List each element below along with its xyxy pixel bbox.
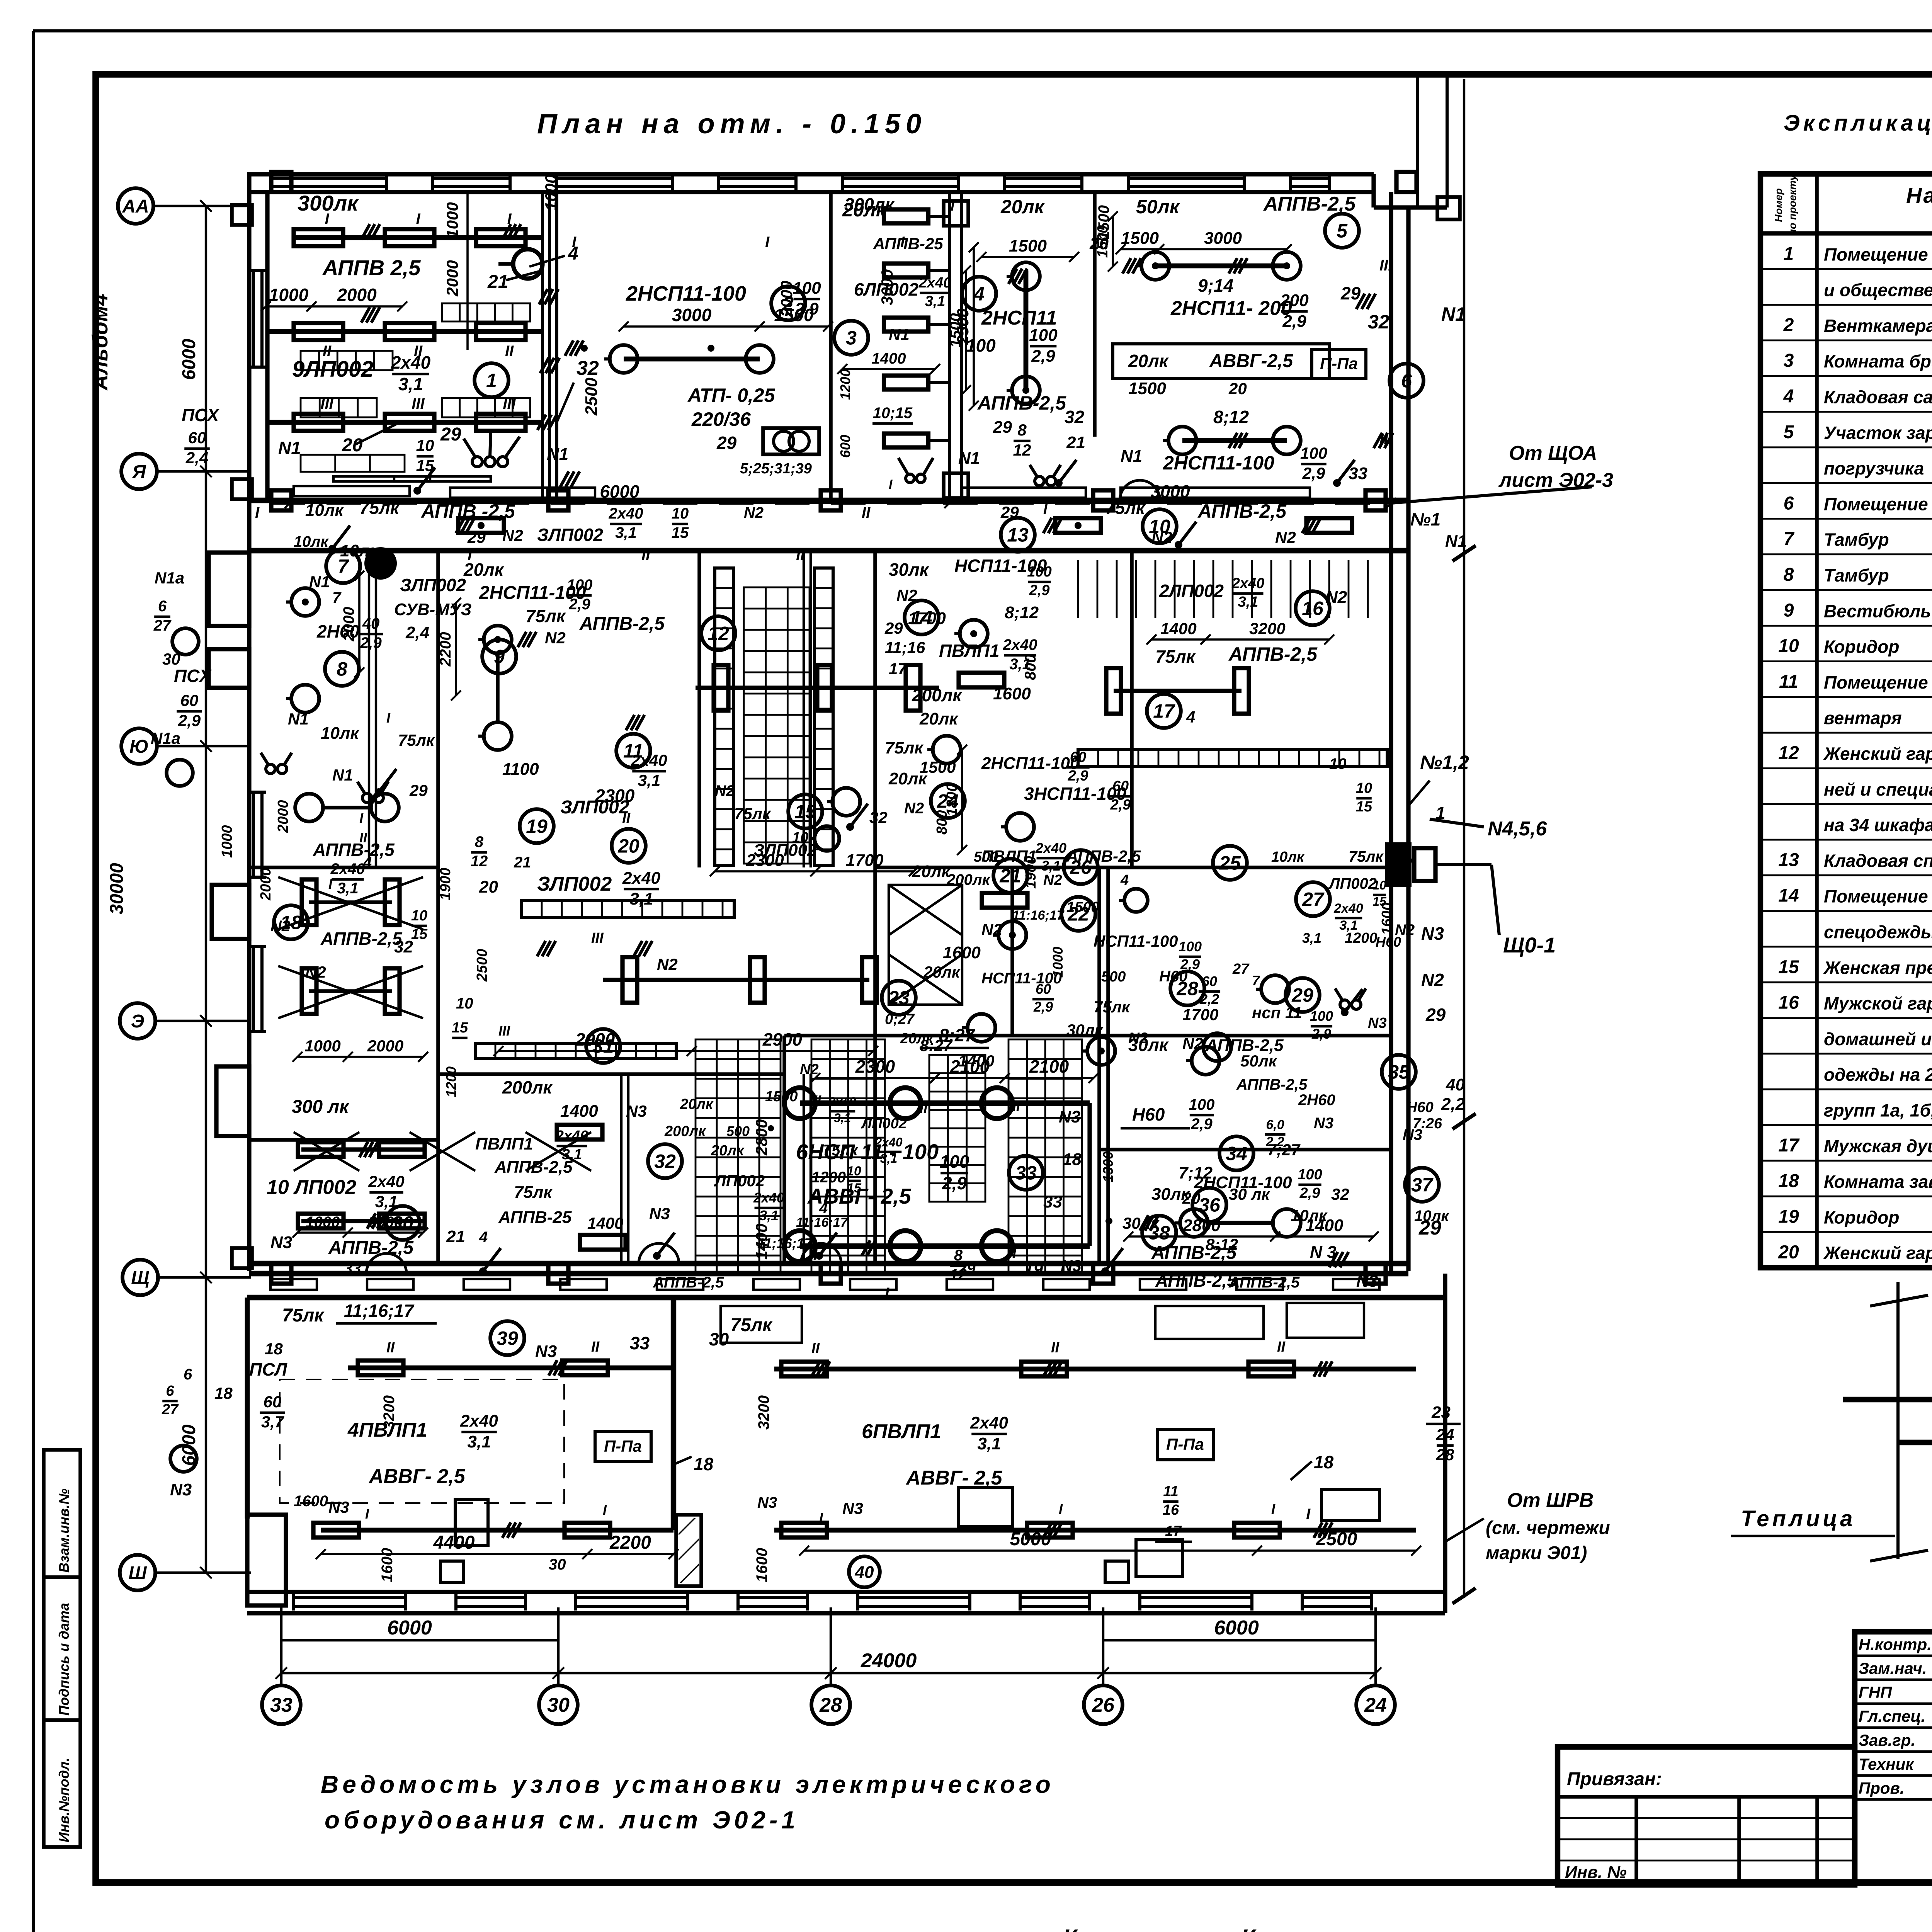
svg-text:75лк: 75лк <box>1094 998 1131 1016</box>
svg-text:8;12: 8;12 <box>1005 603 1039 622</box>
svg-text:2,9: 2,9 <box>942 1173 967 1193</box>
svg-text:75лк: 75лк <box>734 804 771 823</box>
svg-text:Пров.: Пров. <box>1859 1779 1905 1797</box>
svg-text:2,9: 2,9 <box>360 634 382 651</box>
svg-text:10: 10 <box>672 505 689 522</box>
svg-text:100: 100 <box>1179 939 1202 954</box>
svg-text:N1а: N1а <box>151 729 180 747</box>
svg-text:7: 7 <box>1252 973 1260 988</box>
room 12 <box>701 616 735 650</box>
svg-text:ПВЛП1: ПВЛП1 <box>981 847 1037 865</box>
svg-text:1700: 1700 <box>846 851 884 870</box>
svg-text:N1: N1 <box>1445 532 1467 551</box>
svg-text:33: 33 <box>1015 1162 1037 1184</box>
rooms 21-29 <box>889 885 962 935</box>
svg-text:100: 100 <box>1298 1167 1322 1183</box>
svg-text:N1: N1 <box>309 573 330 591</box>
room 16 <box>1296 591 1330 625</box>
svg-text:33: 33 <box>1043 1192 1062 1211</box>
svg-text:19: 19 <box>1024 1260 1043 1279</box>
svg-text:2,9: 2,9 <box>1302 464 1325 482</box>
svg-text:18: 18 <box>1314 1452 1334 1472</box>
svg-text:I: I <box>1271 1501 1276 1517</box>
svg-text:II: II <box>1012 1098 1020 1114</box>
svg-text:2100: 2100 <box>950 1056 990 1077</box>
svg-text:2x40: 2x40 <box>368 1172 404 1190</box>
vertical riser double lines <box>368 551 370 867</box>
svg-text:29: 29 <box>467 528 486 546</box>
svg-text:3: 3 <box>1784 350 1794 371</box>
svg-text:I: I <box>359 810 364 826</box>
svg-text:Женский гардероб: Женский гардероб <box>1823 1243 1932 1263</box>
svg-text:2000: 2000 <box>337 285 377 305</box>
interior partitions top block <box>541 192 544 500</box>
svg-text:20: 20 <box>479 878 498 896</box>
svg-text:Коридор: Коридор <box>1824 637 1899 657</box>
svg-text:10: 10 <box>1356 780 1372 796</box>
svg-text:6000: 6000 <box>1214 1617 1259 1639</box>
hatched block (cold chamber) <box>1896 1282 1900 1559</box>
svg-text:2x40: 2x40 <box>1035 840 1066 856</box>
svg-text:Н60: Н60 <box>1132 1104 1165 1124</box>
svg-text:N3: N3 <box>1403 1126 1422 1143</box>
svg-text:3,1: 3,1 <box>1238 594 1259 610</box>
svg-text:ПСЛ: ПСЛ <box>249 1359 287 1379</box>
svg-text:N1: N1 <box>278 438 301 458</box>
svg-text:33: 33 <box>270 1694 293 1716</box>
svg-text:1000: 1000 <box>443 202 461 238</box>
svg-text:33: 33 <box>1349 464 1367 483</box>
svg-text:220/36: 220/36 <box>691 408 751 430</box>
svg-text:N1: N1 <box>1121 447 1142 466</box>
left dimension chain <box>205 206 207 1573</box>
room 23 <box>882 981 916 1015</box>
svg-text:по проекту: по проекту <box>1787 174 1798 236</box>
svg-text:Помещение красного уголка: Помещение красного уголка <box>1824 244 1932 264</box>
svg-text:25: 25 <box>1219 852 1241 874</box>
svg-text:6: 6 <box>158 598 167 615</box>
svg-text:N3: N3 <box>842 1499 863 1517</box>
svg-text:III: III <box>498 1023 510 1039</box>
svg-text:2x40: 2x40 <box>460 1412 498 1430</box>
svg-text:АППВ-2,5: АППВ-2,5 <box>320 929 403 949</box>
svg-text:Щ: Щ <box>131 1268 149 1288</box>
svg-text:12: 12 <box>471 853 488 870</box>
svg-text:29: 29 <box>993 418 1012 437</box>
svg-text:75лк: 75лк <box>514 1183 553 1202</box>
svg-text:N3: N3 <box>649 1204 670 1223</box>
svg-text:60: 60 <box>180 691 199 709</box>
svg-text:10: 10 <box>1778 636 1799 656</box>
svg-text:20: 20 <box>617 835 639 857</box>
svg-text:15: 15 <box>1356 799 1372 815</box>
svg-text:N3: N3 <box>757 1494 777 1511</box>
svg-text:ЗЛП002: ЗЛП002 <box>753 841 817 860</box>
junction dots <box>581 345 588 352</box>
svg-text:5: 5 <box>1337 220 1348 242</box>
room 22 <box>1061 897 1095 931</box>
svg-text:1100: 1100 <box>502 760 539 779</box>
svg-text:1700: 1700 <box>1182 1005 1218 1024</box>
svg-text:800: 800 <box>1022 654 1039 680</box>
svg-text:3200: 3200 <box>381 1395 398 1430</box>
switch trio <box>472 457 482 467</box>
svg-text:Ш: Ш <box>129 1563 147 1583</box>
svg-text:8: 8 <box>337 658 347 680</box>
svg-text:АППВ-2,5: АППВ-2,5 <box>494 1158 573 1177</box>
room 3 <box>834 321 868 355</box>
svg-text:№1,2: №1,2 <box>1420 752 1469 773</box>
svg-text:11;16;17: 11;16;17 <box>344 1301 415 1321</box>
room 20 <box>612 829 646 863</box>
svg-text:6: 6 <box>166 1383 174 1399</box>
svg-text:N2: N2 <box>1275 528 1296 546</box>
svg-text:33: 33 <box>344 1260 361 1277</box>
svg-text:II: II <box>359 830 367 845</box>
svg-text:Наименование: Наименование <box>1906 183 1932 207</box>
svg-text:Техник: Техник <box>1859 1755 1914 1773</box>
svg-text:АППВ-2,5: АППВ-2,5 <box>579 614 665 634</box>
svg-text:29: 29 <box>716 433 737 453</box>
svg-text:30: 30 <box>709 1329 729 1349</box>
svg-text:N3: N3 <box>535 1342 557 1361</box>
svg-text:6: 6 <box>184 1366 192 1383</box>
svg-text:одежды на 25 шкафов для: одежды на 25 шкафов для <box>1824 1065 1932 1085</box>
svg-text:3: 3 <box>846 327 857 349</box>
svg-text:27: 27 <box>153 617 172 634</box>
svg-text:5;25;31;39: 5;25;31;39 <box>740 461 812 477</box>
svg-text:I: I <box>255 504 260 521</box>
svg-text:8: 8 <box>1784 565 1794 585</box>
svg-text:2100: 2100 <box>1029 1056 1069 1077</box>
svg-text:8;12: 8;12 <box>1213 407 1249 427</box>
svg-text:10лк: 10лк <box>294 533 329 550</box>
left exterior wall <box>247 174 251 1271</box>
svg-text:75лк: 75лк <box>282 1305 325 1326</box>
svg-text:24: 24 <box>1364 1694 1387 1716</box>
svg-text:II: II <box>386 1340 395 1356</box>
svg-text:1200: 1200 <box>443 1066 459 1097</box>
svg-text:1600: 1600 <box>753 1548 770 1582</box>
svg-text:6000: 6000 <box>179 338 199 380</box>
svg-text:2,9: 2,9 <box>1190 1116 1213 1133</box>
svg-text:П-Па: П-Па <box>604 1437 642 1455</box>
svg-text:1400: 1400 <box>1160 619 1196 638</box>
room 20 bottom comb <box>475 1043 676 1059</box>
svg-text:1600: 1600 <box>294 1493 328 1510</box>
svg-text:Зав.гр.: Зав.гр. <box>1859 1731 1915 1749</box>
svg-text:Номер: Номер <box>1773 188 1784 222</box>
svg-text:Н60: Н60 <box>1159 968 1187 985</box>
room 10 <box>1143 509 1177 543</box>
svg-text:3000: 3000 <box>1204 229 1242 248</box>
svg-text:АППВ-25: АППВ-25 <box>498 1208 572 1227</box>
benches/small furniture bottom of top rooms <box>450 488 595 498</box>
svg-text:АА: АА <box>122 196 149 217</box>
svg-text:50лк: 50лк <box>1136 196 1180 218</box>
svg-text:АППВ-25: АППВ-25 <box>873 235 943 253</box>
svg-text:8: 8 <box>475 833 484 850</box>
svg-text:II: II <box>622 810 631 827</box>
svg-text:6: 6 <box>1784 493 1794 514</box>
svg-text:ПСХ: ПСХ <box>174 666 212 686</box>
svg-text:100: 100 <box>793 279 821 298</box>
svg-text:П-Па: П-Па <box>1320 354 1358 372</box>
svg-text:Коридор: Коридор <box>1824 1207 1899 1227</box>
svg-text:N3: N3 <box>1314 1115 1333 1132</box>
svg-text:Помещение хранения инвентаря: Помещение хранения инвентаря <box>1824 494 1932 514</box>
svg-text:7: 7 <box>1784 529 1795 549</box>
svg-text:I: I <box>951 198 955 214</box>
room 1 <box>474 363 509 397</box>
room 38 <box>1142 1216 1176 1250</box>
svg-text:АВВГ- 2,5: АВВГ- 2,5 <box>905 1467 1003 1489</box>
svg-text:Ю: Ю <box>129 736 149 757</box>
corridor walls <box>249 498 1408 503</box>
svg-text:нсп 11: нсп 11 <box>1252 1003 1302 1022</box>
svg-text:2,2: 2,2 <box>1441 1095 1465 1114</box>
svg-text:32: 32 <box>654 1151 676 1172</box>
room 35 <box>1382 1055 1416 1089</box>
greenhouse divider wall <box>671 1298 676 1530</box>
svg-text:2x40: 2x40 <box>631 751 667 769</box>
svg-text:29: 29 <box>1000 503 1019 521</box>
svg-text:1000: 1000 <box>306 1214 340 1231</box>
svg-text:2,9: 2,9 <box>1110 797 1131 813</box>
svg-text:17: 17 <box>1153 701 1175 722</box>
svg-text:20лк: 20лк <box>1000 196 1045 218</box>
svg-text:20: 20 <box>1778 1242 1799 1263</box>
svg-text:1500: 1500 <box>1066 899 1099 915</box>
svg-text:N2: N2 <box>715 782 735 799</box>
svg-text:3200: 3200 <box>755 1395 772 1430</box>
svg-text:39: 39 <box>497 1328 518 1349</box>
svg-text:2000: 2000 <box>777 281 796 317</box>
svg-text:II: II <box>920 1100 928 1116</box>
svg-text:I: I <box>819 1510 823 1526</box>
room 27 <box>1296 882 1330 916</box>
svg-text:40: 40 <box>855 1563 874 1582</box>
room 37 <box>1405 1168 1439 1202</box>
svg-text:1500: 1500 <box>1009 236 1047 255</box>
svg-text:N2: N2 <box>502 526 523 544</box>
svg-text:N3: N3 <box>270 1233 292 1252</box>
svg-text:Н60: Н60 <box>1406 1099 1434 1116</box>
svg-text:АППВ 2,5: АППВ 2,5 <box>322 255 421 280</box>
svg-text:2000: 2000 <box>367 1037 403 1055</box>
svg-text:1000: 1000 <box>542 175 560 211</box>
svg-text:2500: 2500 <box>582 378 601 416</box>
svg-text:N3: N3 <box>1368 1015 1387 1031</box>
svg-text:18: 18 <box>1778 1171 1799 1191</box>
svg-text:(см. чертежи: (см. чертежи <box>1486 1518 1610 1538</box>
svg-text:18: 18 <box>214 1384 233 1402</box>
svg-text:2x40: 2x40 <box>918 275 952 291</box>
greenhouse left wall <box>245 1298 250 1519</box>
svg-text:75лк: 75лк <box>359 498 400 518</box>
svg-text:II: II <box>862 504 871 521</box>
svg-text:АППВ-2,5: АППВ-2,5 <box>1197 500 1287 522</box>
svg-text:2,2: 2,2 <box>1265 1134 1284 1149</box>
svg-text:Участок зарядки электро-: Участок зарядки электро- <box>1824 423 1932 443</box>
svg-text:2НСП11- 200: 2НСП11- 200 <box>1170 297 1292 320</box>
svg-text:2200: 2200 <box>609 1532 651 1553</box>
room explication table at x=4556 <box>1760 174 1932 1268</box>
svg-text:Комната бригадира: Комната бригадира <box>1824 351 1932 371</box>
room 28 <box>1170 971 1204 1005</box>
svg-text:18: 18 <box>265 1340 283 1358</box>
svg-text:5: 5 <box>1784 422 1794 442</box>
svg-text:1: 1 <box>1435 803 1446 823</box>
svg-text:19: 19 <box>526 816 548 837</box>
room 7 <box>326 549 360 583</box>
svg-text:N1: N1 <box>288 710 309 728</box>
svg-text:Гл.спец.: Гл.спец. <box>1859 1707 1925 1725</box>
svg-text:12: 12 <box>1013 441 1031 459</box>
svg-text:N3: N3 <box>1421 923 1444 944</box>
svg-text:15: 15 <box>1778 957 1799 977</box>
svg-text:10лк: 10лк <box>321 724 360 743</box>
svg-text:N1а: N1а <box>155 569 184 587</box>
svg-text:2,2: 2,2 <box>1199 991 1219 1007</box>
wire crossing ticks and junction dots <box>361 224 370 240</box>
svg-text:1000: 1000 <box>269 285 309 305</box>
svg-text:N2: N2 <box>545 629 566 647</box>
svg-text:N2: N2 <box>1043 872 1062 888</box>
svg-text:9;14: 9;14 <box>1198 276 1233 296</box>
room 16 lockers <box>1077 560 1079 618</box>
svg-text:3,1: 3,1 <box>925 293 946 310</box>
svg-text:13: 13 <box>1778 850 1799 870</box>
svg-text:I: I <box>900 234 905 251</box>
svg-text:23: 23 <box>1431 1403 1451 1422</box>
svg-text:18: 18 <box>694 1454 714 1474</box>
attachment box <box>1558 1747 1855 1885</box>
room 9 <box>482 639 516 673</box>
right exterior wall <box>1389 192 1393 1271</box>
rooms 18-19 <box>302 879 316 925</box>
svg-text:I: I <box>416 211 420 228</box>
svg-text:10: 10 <box>411 908 427 924</box>
svg-text:2x40: 2x40 <box>622 869 660 888</box>
room 39 <box>490 1321 524 1355</box>
svg-text:20лк: 20лк <box>888 769 928 788</box>
vestibule <box>291 588 319 616</box>
svg-text:1600: 1600 <box>943 943 981 962</box>
svg-text:29: 29 <box>440 424 461 445</box>
svg-text:погрузчика: погрузчика <box>1824 458 1924 478</box>
room 8 <box>325 652 359 686</box>
svg-text:Венткамера: Венткамера <box>1824 316 1932 336</box>
svg-text:29: 29 <box>1395 854 1412 871</box>
svg-text:ЗЛП002: ЗЛП002 <box>537 525 603 545</box>
svg-text:Вестибюль: Вестибюль <box>1824 601 1931 621</box>
svg-text:1300: 1300 <box>1100 1151 1116 1182</box>
svg-text:1700: 1700 <box>908 609 946 628</box>
svg-text:3,1: 3,1 <box>467 1432 491 1451</box>
svg-text:300 лк: 300 лк <box>292 1097 350 1117</box>
room 19 <box>520 809 554 843</box>
svg-text:N1: N1 <box>1441 303 1466 325</box>
svg-text:15: 15 <box>672 524 689 541</box>
svg-text:8;27: 8;27 <box>939 1025 975 1045</box>
interior partitions middle block <box>436 551 440 1264</box>
cold chamber grids (room 33) <box>811 1039 885 1275</box>
svg-text:N2: N2 <box>904 800 924 817</box>
svg-text:III: III <box>1379 257 1393 274</box>
svg-text:2: 2 <box>1783 315 1794 335</box>
svg-text:АППВ-2,5: АППВ-2,5 <box>1228 643 1318 665</box>
top-right step / shaft <box>1371 174 1376 207</box>
svg-text:1400: 1400 <box>752 1224 770 1260</box>
svg-text:4: 4 <box>1120 872 1129 888</box>
locker combs <box>442 303 530 321</box>
svg-text:План на отм. - 0.150: План на отм. - 0.150 <box>537 109 927 139</box>
svg-text:6000: 6000 <box>600 481 639 502</box>
shaft hatch marks <box>539 289 548 304</box>
svg-text:Инв.№подл.: Инв.№подл. <box>56 1758 72 1842</box>
title block <box>1855 1632 1932 1883</box>
svg-text:100: 100 <box>1029 326 1058 345</box>
svg-text:7: 7 <box>332 589 342 606</box>
svg-text:домашней и специальной: домашней и специальной <box>1824 1029 1932 1049</box>
svg-text:20лк: 20лк <box>900 1031 934 1047</box>
svg-text:10;15: 10;15 <box>873 405 913 422</box>
svg-text:10лк: 10лк <box>1271 849 1305 865</box>
svg-text:на 34 шкафа для группы 2в: на 34 шкафа для группы 2в <box>1824 815 1932 835</box>
room 12 lockers <box>715 568 733 866</box>
svg-text:3,1: 3,1 <box>615 524 637 541</box>
svg-text:3,7: 3,7 <box>261 1413 284 1431</box>
svg-text:300лк: 300лк <box>298 191 359 215</box>
svg-text:1000: 1000 <box>304 1037 340 1055</box>
svg-text:I: I <box>1012 1245 1017 1261</box>
svg-text:N3: N3 <box>1061 1257 1082 1275</box>
svg-text:75лк: 75лк <box>1155 646 1196 667</box>
svg-text:Альбом4: Альбом4 <box>88 294 112 391</box>
svg-text:6,0: 6,0 <box>1266 1117 1284 1132</box>
svg-text:11:16;17: 11:16;17 <box>1012 908 1065 923</box>
svg-text:Ведомость узлов установки э: Ведомость узлов установки электрического <box>321 1770 1054 1798</box>
svg-text:2000: 2000 <box>443 260 461 296</box>
room 3 luminaire stack <box>884 209 929 223</box>
svg-text:ПВЛП1: ПВЛП1 <box>939 641 1000 661</box>
svg-text:Кладовая спецодежды: Кладовая спецодежды <box>1824 850 1932 871</box>
svg-text:I: I <box>1059 1501 1063 1517</box>
svg-text:N4,5,6: N4,5,6 <box>1488 818 1547 840</box>
cold chamber lamps <box>800 1100 1090 1106</box>
svg-text:N2: N2 <box>1325 588 1347 607</box>
svg-text:I: I <box>1043 501 1048 517</box>
svg-text:N2: N2 <box>657 955 678 973</box>
svg-text:ЗЛП002: ЗЛП002 <box>560 797 629 818</box>
svg-text:АППВ-2,5: АППВ-2,5 <box>1155 1270 1237 1291</box>
svg-text:32: 32 <box>577 357 599 379</box>
svg-text:2НСП11-100: 2НСП11-100 <box>626 282 746 305</box>
svg-text:№1: №1 <box>1410 509 1440 529</box>
svg-text:2500: 2500 <box>474 949 490 982</box>
svg-text:3,1: 3,1 <box>1302 930 1321 946</box>
svg-text:N2: N2 <box>896 586 917 604</box>
svg-text:32: 32 <box>1368 311 1389 333</box>
room 36 <box>1192 1188 1226 1222</box>
svg-text:Тамбур: Тамбур <box>1824 530 1889 550</box>
room 18 <box>274 905 308 939</box>
svg-text:29: 29 <box>1340 283 1361 303</box>
svg-text:АВВГ-2,5: АВВГ-2,5 <box>1209 351 1293 371</box>
room 34 <box>1219 1136 1253 1170</box>
room 30 <box>386 1206 420 1240</box>
